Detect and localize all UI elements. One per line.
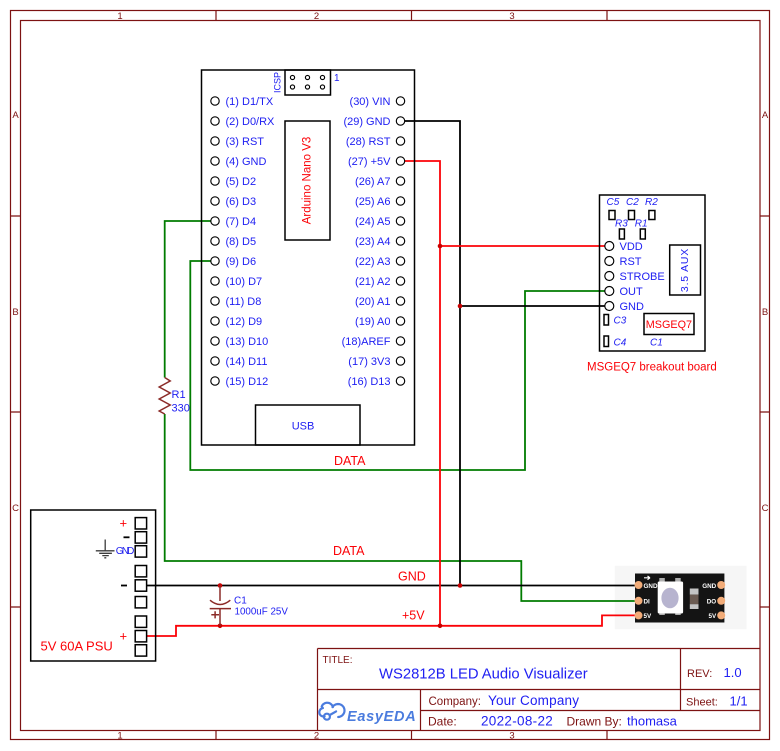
wire: black GND Arduino pin29 down [405, 121, 460, 586]
svg-text:3.5 AUX: 3.5 AUX [679, 248, 691, 292]
resistor R1 on breakout [635, 219, 648, 240]
svg-text:5V: 5V [708, 613, 717, 620]
wire: black GND MSGEQ7 GND pin [460, 305, 605, 307]
svg-text:C1: C1 [234, 596, 247, 607]
svg-text:1: 1 [117, 11, 122, 22]
Arduino Nano V3 inner label box [285, 121, 330, 240]
svg-text:1000uF 25V: 1000uF 25V [235, 607, 289, 618]
svg-text:Sheet:: Sheet: [686, 697, 718, 709]
junction dot [218, 583, 223, 588]
pin (7) D4 [211, 216, 256, 228]
svg-text:(18)AREF: (18)AREF [342, 336, 391, 348]
pin (22) A3 [355, 256, 405, 268]
PSU pin label - [124, 536, 130, 538]
svg-text:3: 3 [509, 11, 514, 22]
pin STROBE [605, 271, 665, 283]
pin (6) D3 [211, 196, 256, 208]
pin (8) D5 [211, 236, 256, 248]
capacitor C2 on breakout [626, 197, 639, 220]
3.5 AUX jack box [670, 245, 701, 295]
svg-text:TITLE:: TITLE: [323, 655, 353, 666]
svg-text:+: + [120, 516, 128, 531]
svg-text:(6) D3: (6) D3 [226, 196, 257, 208]
capacitor C4 on breakout [604, 336, 627, 349]
svg-text:C2: C2 [626, 197, 639, 208]
svg-text:1.0: 1.0 [724, 665, 742, 680]
svg-text:+: + [120, 629, 128, 644]
svg-text:2: 2 [314, 11, 319, 22]
svg-text:OUT: OUT [620, 286, 644, 298]
pin OUT [605, 286, 643, 298]
svg-text:(14) D11: (14) D11 [226, 356, 268, 368]
pin (27) +5V [348, 156, 405, 168]
Arduino Nano V3 module body [202, 70, 415, 445]
svg-text:EasyEDA: EasyEDA [347, 709, 416, 725]
svg-text:2022-08-22: 2022-08-22 [481, 714, 553, 729]
svg-text:(2) D0/RX: (2) D0/RX [226, 116, 276, 128]
svg-text:Your Company: Your Company [488, 693, 579, 708]
svg-text:A: A [12, 110, 19, 121]
svg-text:(10) D7: (10) D7 [226, 276, 263, 288]
svg-text:(25) A6: (25) A6 [355, 196, 390, 208]
svg-text:Company:: Company: [429, 696, 481, 708]
svg-text:Drawn By:: Drawn By: [567, 715, 622, 729]
svg-text:DATA: DATA [334, 454, 366, 468]
MSGEQ7 chip label box [644, 314, 694, 335]
power supply 5V 60A PSU body [31, 510, 156, 661]
resistor R2 on breakout [645, 197, 658, 220]
svg-text:(23) A4: (23) A4 [355, 236, 390, 248]
PSU pin label - (mid) [121, 585, 127, 587]
wire: red +5V Arduino pin27 down [405, 161, 440, 626]
svg-text:+5V: +5V [402, 609, 425, 623]
svg-text:A: A [762, 110, 769, 121]
svg-text:DO: DO [707, 599, 717, 606]
svg-text:REV:: REV: [687, 668, 712, 680]
svg-text:(30) VIN: (30) VIN [350, 96, 391, 108]
svg-text:MSGEQ7: MSGEQ7 [646, 319, 692, 331]
svg-text:R1: R1 [172, 389, 186, 401]
svg-text:GND: GND [116, 546, 135, 557]
pin (17) 3V3 [348, 356, 404, 368]
svg-text:330: 330 [172, 403, 190, 415]
svg-text:(11) D8: (11) D8 [226, 296, 262, 308]
pin (10) D7 [211, 276, 262, 288]
svg-text:1/1: 1/1 [730, 694, 748, 709]
svg-text:Date:: Date: [428, 715, 457, 729]
REV label [687, 665, 742, 680]
wire: red +5V branch to MSGEQ7 VDD [440, 245, 605, 247]
USB connector box [256, 405, 361, 445]
svg-text:R2: R2 [645, 197, 658, 208]
pin (11) D8 [211, 296, 262, 308]
svg-text:(28) RST: (28) RST [346, 136, 391, 148]
svg-text:VDD: VDD [620, 241, 643, 253]
pin (14) D11 [211, 356, 268, 368]
resistor R3 on breakout [615, 219, 628, 240]
pin (30) VIN [350, 96, 405, 108]
svg-text:(21) A2: (21) A2 [355, 276, 390, 288]
svg-text:(29) GND: (29) GND [343, 116, 390, 128]
junction dot [438, 624, 443, 629]
svg-text:3: 3 [509, 731, 514, 742]
svg-text:B: B [762, 307, 768, 318]
svg-text:(16) D13: (16) D13 [348, 376, 391, 388]
svg-text:5V: 5V [644, 613, 653, 620]
EasyEDA logo [319, 703, 344, 720]
pin (28) RST [346, 136, 405, 148]
svg-text:USB: USB [292, 421, 315, 433]
pin (24) A5 [355, 216, 405, 228]
wire: green DATA net R1 bottom to LED DI pad [165, 414, 636, 601]
pin (2) D0/RX [211, 116, 275, 128]
pin RST [605, 256, 642, 268]
svg-text:B: B [12, 307, 18, 318]
junction dot [458, 304, 463, 309]
svg-text:(8) D5: (8) D5 [226, 236, 257, 248]
resistor R1 [159, 378, 190, 415]
LED pad GND (right) [702, 581, 725, 590]
pin (15) D12 [211, 376, 268, 388]
pin (4) GND [211, 156, 267, 168]
pin (29) GND [343, 116, 404, 128]
svg-text:RST: RST [620, 256, 642, 268]
svg-text:C5: C5 [607, 197, 620, 208]
capacitor C5 on breakout [607, 197, 620, 220]
LED pad 5V (left) [635, 611, 653, 620]
svg-text:R1: R1 [635, 219, 648, 230]
PSU terminal pins [135, 518, 146, 657]
pin VDD [605, 241, 643, 253]
svg-text:MSGEQ7 breakout board: MSGEQ7 breakout board [587, 362, 717, 374]
svg-text:2: 2 [314, 731, 319, 742]
pin GND [605, 301, 644, 313]
pin (12) D9 [211, 316, 262, 328]
svg-text:5V 60A PSU: 5V 60A PSU [41, 639, 113, 654]
MSGEQ7 breakout board body [600, 195, 706, 351]
pin (18)AREF [342, 336, 405, 348]
svg-text:WS2812B LED Audio Visualizer: WS2812B LED Audio Visualizer [379, 667, 588, 683]
junction dot [438, 244, 443, 249]
pin (1) D1/TX [211, 96, 274, 108]
svg-text:(15) D12: (15) D12 [226, 376, 269, 388]
Date row [428, 714, 678, 729]
svg-text:(3) RST: (3) RST [226, 136, 265, 148]
svg-text:ICSP: ICSP [273, 72, 283, 93]
svg-text:(20) A1: (20) A1 [355, 296, 390, 308]
svg-text:(26) A7: (26) A7 [355, 176, 390, 188]
LED pad 5V (right) [708, 611, 725, 620]
LED pad DO [707, 597, 725, 606]
Sheet label [686, 694, 748, 709]
pin (16) D13 [348, 376, 405, 388]
svg-text:GND: GND [398, 570, 426, 584]
pin (19) A0 [355, 316, 405, 328]
pin (3) RST [211, 136, 264, 148]
svg-text:(1) D1/TX: (1) D1/TX [226, 96, 274, 108]
svg-text:thomasa: thomasa [627, 714, 678, 729]
svg-text:(19) A0: (19) A0 [355, 316, 390, 328]
svg-text:(22) A3: (22) A3 [355, 256, 390, 268]
pin (25) A6 [355, 196, 405, 208]
svg-text:1: 1 [117, 731, 122, 742]
svg-text:GND: GND [702, 583, 716, 590]
capacitor C1 (polarized) [210, 586, 289, 626]
svg-text:STROBE: STROBE [620, 271, 665, 283]
LED pad DI [635, 597, 651, 606]
junction dot [458, 583, 463, 588]
svg-text:(24) A5: (24) A5 [355, 216, 390, 228]
pin (23) A4 [355, 236, 405, 248]
LED pad GND (left) [635, 581, 658, 590]
svg-text:C: C [762, 503, 769, 514]
wire: black GND net PSU to LED GND pad [147, 585, 636, 587]
ICSP header [273, 70, 341, 95]
svg-text:Arduino Nano V3: Arduino Nano V3 [302, 137, 314, 225]
svg-text:C4: C4 [614, 338, 627, 349]
pin (21) A2 [355, 276, 405, 288]
WS2812B LED pads and body [644, 576, 699, 615]
svg-text:C: C [12, 503, 19, 514]
Company row [429, 693, 580, 708]
svg-text:(4) GND: (4) GND [226, 156, 267, 168]
svg-text:C1: C1 [650, 338, 663, 349]
svg-text:(7) D4: (7) D4 [226, 216, 257, 228]
junction dot [218, 624, 223, 629]
svg-text:C3: C3 [614, 316, 627, 327]
pin (5) D2 [211, 176, 256, 188]
svg-text:GND: GND [644, 583, 658, 590]
capacitor C3 on breakout [604, 315, 627, 327]
ground symbol [96, 540, 115, 558]
pin (13) D10 [211, 336, 268, 348]
wire: green DATA net Arduino D4 via R1 to LED DI [165, 221, 211, 378]
wire: green DATA net Arduino D6 to MSGEQ7 OUT [190, 261, 605, 470]
svg-text:1: 1 [334, 73, 340, 84]
svg-text:(17) 3V3: (17) 3V3 [348, 356, 390, 368]
svg-text:DATA: DATA [333, 544, 365, 558]
svg-text:(13) D10: (13) D10 [226, 336, 269, 348]
pin (20) A1 [355, 296, 405, 308]
WS2812B LED module background [615, 566, 747, 629]
pin (9) D6 [211, 256, 256, 268]
svg-text:R3: R3 [615, 219, 628, 230]
title block frame [318, 649, 761, 731]
svg-text:(9) D6: (9) D6 [226, 256, 257, 268]
pin (26) A7 [355, 176, 405, 188]
svg-text:(27) +5V: (27) +5V [348, 156, 391, 168]
wire: red +5V PSU to LED 5V pad [147, 615, 636, 636]
svg-text:(5) D2: (5) D2 [226, 176, 257, 188]
svg-text:(12) D9: (12) D9 [226, 316, 263, 328]
svg-text:DI: DI [644, 599, 651, 606]
svg-text:GND: GND [620, 301, 645, 313]
